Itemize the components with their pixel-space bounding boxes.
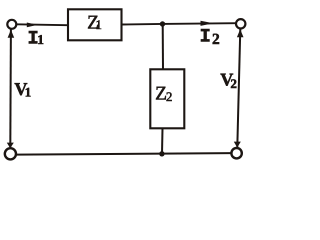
junction dot A (top): [160, 21, 165, 26]
label I1: [29, 31, 37, 44]
current arrow I1: [27, 23, 38, 28]
impedance box Z2: [150, 69, 184, 128]
terminal T2 (top-right port): [236, 19, 245, 28]
label Z2: [156, 87, 166, 100]
wire top-left (T1 to Z1): [17, 23, 68, 26]
terminal T3 (bottom-left port): [5, 148, 16, 159]
voltage arrow V2 tail head (down): [234, 142, 241, 148]
wire Z1 to junction A: [122, 23, 163, 26]
label V2: [221, 74, 234, 86]
voltage arrow V1 tail head (down): [7, 143, 14, 149]
terminal T1 (top-left port): [7, 20, 16, 29]
wire junction A down to Z2: [162, 24, 164, 70]
wire junction A to T2: [163, 22, 237, 25]
label V1: [15, 83, 28, 95]
junction dot B (bottom): [159, 151, 164, 156]
wire Z2 down to junction B: [161, 128, 164, 154]
wire left vertical (T1 to T3): [9, 30, 12, 148]
impedance box Z1: [68, 9, 122, 40]
label I2: [201, 29, 209, 42]
wire right vertical (T2 to T4): [237, 29, 240, 147]
label Z1: [88, 16, 98, 29]
voltage arrow V2 head (up): [237, 29, 244, 37]
current arrow I2: [201, 21, 214, 26]
voltage arrow V1 head (up): [8, 30, 15, 38]
wire bottom rail (T3 to T4): [17, 153, 231, 155]
terminal T4 (bottom-right port): [231, 148, 241, 158]
